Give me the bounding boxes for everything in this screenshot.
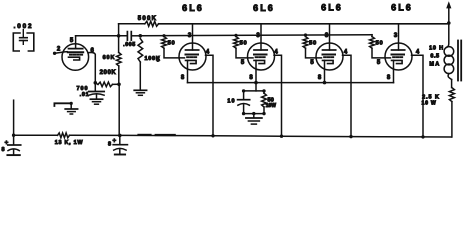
resistor 60K label — [103, 55, 116, 61]
svg-text:50: 50 — [376, 40, 384, 46]
resistor 100K grid leak — [138, 39, 143, 90]
svg-text:3: 3 — [256, 33, 260, 39]
svg-text:6.5: 6.5 — [430, 54, 439, 60]
tube V3 cathode — [254, 60, 265, 63]
resistor 13K label — [55, 140, 84, 146]
wire grid lead to V1 — [54, 52, 67, 54]
pin 3 label tube 4 — [394, 33, 398, 39]
tube V4 grid dashes — [323, 55, 336, 58]
node grid bus tap 3 — [304, 33, 307, 36]
choke core lines — [458, 41, 461, 81]
resistor 2.5K labels — [422, 95, 440, 107]
tube V1 envelope — [62, 44, 89, 71]
capacitor in input source — [20, 30, 28, 45]
capacitor 8uF right — [113, 135, 127, 154]
wire cathode pin 8 tube 2 — [255, 60, 257, 82]
svg-text:500K: 500K — [138, 16, 158, 22]
tube 6L6 label 1 — [182, 3, 204, 13]
node screen to rail 4 — [421, 135, 424, 138]
pin 3 label tube 2 — [256, 33, 260, 39]
resistor 500K feedback — [119, 21, 159, 26]
pin 4 label tube 4 — [416, 50, 420, 56]
node bias center bottom — [252, 112, 255, 115]
tube V2 plate pin 3 — [186, 24, 199, 50]
tube 6L6 V3 envelope — [248, 43, 275, 70]
wire left terminal stub — [13, 100, 15, 135]
wire screen pin 4 tube 3 — [343, 55, 352, 136]
svg-text:50: 50 — [168, 40, 176, 46]
svg-text:8: 8 — [318, 75, 322, 81]
node grid bus junction — [139, 34, 143, 38]
tube V5 plate pin 3 — [392, 24, 405, 50]
svg-text:.002: .002 — [14, 23, 34, 30]
wire bus to choke — [447, 23, 449, 47]
wire screen pin 4 tube 1 — [206, 55, 214, 136]
svg-text:10 W: 10 W — [422, 101, 437, 107]
input source right bracket — [27, 33, 34, 51]
svg-text:13 K, 1W: 13 K, 1W — [55, 140, 84, 146]
capacitor .005 label — [123, 42, 136, 48]
pin 5 label tube 3 — [310, 60, 314, 66]
svg-text:8: 8 — [108, 142, 111, 148]
resistor 50 grid V5 — [370, 35, 391, 58]
tube 6L6 label 4 — [391, 3, 413, 13]
svg-text:8: 8 — [181, 75, 185, 81]
choke labels — [429, 46, 444, 68]
svg-text:10W: 10W — [266, 103, 277, 109]
pin 8 label tube 2 — [249, 75, 253, 81]
node screen to rail 1 — [211, 134, 214, 137]
node bias res bottom — [262, 112, 265, 115]
wire cathode bus to bias network — [255, 83, 257, 91]
node cathode tube 3 — [323, 81, 327, 85]
tube V2 cathode — [186, 60, 197, 63]
capacitor .005 coupling — [127, 32, 140, 40]
node bias res top — [262, 89, 265, 92]
capacitor 8uF left labels — [1, 139, 8, 153]
wire rail bold segment 2 — [156, 134, 175, 136]
pin 8 label tube 4 — [387, 75, 391, 81]
node screen to rail 2 — [280, 135, 283, 138]
svg-text:8: 8 — [387, 75, 391, 81]
tube V5 grid dashes — [392, 55, 405, 58]
resistor 50 label 4 — [376, 40, 384, 46]
resistor 50 label 3 — [309, 40, 317, 46]
pin 5 label — [70, 38, 74, 44]
pin 3 label tube 1 — [188, 33, 192, 39]
svg-text:8: 8 — [249, 75, 253, 81]
input source left bracket — [13, 33, 20, 51]
capacitor 10 label — [227, 99, 235, 105]
node rail cap2 — [118, 134, 122, 138]
svg-text:.005: .005 — [123, 42, 136, 48]
ground bias network — [246, 114, 262, 125]
node V1 cathode junction — [94, 81, 98, 85]
wire rail bold segment 1 — [139, 134, 151, 136]
wire 60K junction down to rail — [118, 84, 120, 135]
wire up from plate junction — [118, 24, 120, 36]
tube 6L6 V2 envelope — [179, 43, 206, 70]
wire bottom rail left — [14, 134, 58, 136]
resistor 200K — [95, 82, 119, 87]
svg-text:+: + — [112, 138, 116, 145]
svg-text:MA: MA — [429, 62, 440, 68]
svg-text:2: 2 — [57, 46, 61, 52]
resistor 50 grid V4 — [303, 35, 321, 58]
svg-text:50: 50 — [309, 40, 317, 46]
wire cathode pin 8 tube 3 — [324, 60, 326, 82]
pin 5 label tube 4 — [377, 60, 381, 66]
tube 6L6 label 3 — [321, 3, 343, 13]
pin 5 label tube 1 — [156, 58, 160, 64]
pin 6 label — [91, 48, 95, 54]
svg-text:5: 5 — [70, 38, 74, 44]
wire cathode pin 8 tube 4 — [393, 60, 395, 82]
resistor 2.5K 10W — [449, 88, 454, 137]
resistor 50 grid V2 — [162, 36, 185, 58]
wire cathode pin 8 tube 1 — [187, 60, 189, 82]
pin 8 label tube 1 — [181, 75, 185, 81]
wire V1 cathode pin6 to node — [89, 52, 96, 82]
svg-text:5: 5 — [310, 60, 314, 66]
wire grid bus — [140, 35, 372, 36]
wire bottom rail — [70, 135, 452, 137]
svg-text:6L6: 6L6 — [321, 3, 343, 13]
tube V1 cathode — [69, 57, 80, 60]
node 60K bottom junction — [117, 83, 121, 87]
resistor 60K — [117, 36, 122, 85]
svg-text:10 H: 10 H — [429, 46, 444, 52]
svg-text:6L6: 6L6 — [391, 3, 413, 13]
svg-text:10: 10 — [227, 99, 235, 105]
tube V4 cathode — [323, 60, 334, 63]
resistor 50 label 2 — [240, 40, 248, 46]
node grid bus tap 2 — [234, 34, 237, 37]
pin 4 label tube 1 — [206, 50, 210, 56]
capacitor V1 cathode bypass — [89, 83, 104, 99]
node bias cap top — [242, 89, 245, 92]
wire cathode bus — [188, 82, 394, 84]
svg-text:.01: .01 — [80, 92, 90, 98]
svg-text:6L6: 6L6 — [253, 3, 275, 13]
svg-text:60K: 60K — [103, 55, 116, 61]
tube V1 plate — [69, 36, 83, 49]
ground below 100K — [134, 90, 146, 95]
resistor 700 label — [77, 86, 89, 92]
tube V3 grid dashes — [254, 55, 267, 58]
tube V3 plate pin 3 — [254, 24, 267, 50]
resistor 50 10W bias — [262, 91, 267, 114]
wire plate bus — [159, 23, 449, 25]
svg-text:50: 50 — [240, 40, 248, 46]
resistor 200K label — [100, 70, 117, 76]
capacitor 8uF left — [7, 135, 20, 155]
node rail cap1 — [12, 134, 15, 137]
pin 4 label tube 2 — [274, 50, 278, 56]
svg-text:8: 8 — [1, 147, 4, 153]
pin 5 label tube 2 — [241, 60, 245, 66]
tube 6L6 V5 envelope — [385, 43, 412, 70]
capacitor 10 bias — [238, 91, 250, 114]
capacitor .01 label — [80, 92, 90, 98]
pin 4 label tube 3 — [344, 50, 348, 56]
chassis ground with tail — [54, 102, 77, 114]
tube V1 grid dashes — [68, 52, 83, 55]
node B plus junction — [447, 21, 451, 25]
tube 6L6 label 2 — [253, 3, 275, 13]
svg-text:5: 5 — [241, 60, 245, 66]
node input grid terminal — [53, 52, 56, 55]
svg-text:5: 5 — [377, 60, 381, 66]
tube V2 grid dashes — [186, 55, 199, 58]
B plus terminal arrow — [446, 1, 451, 23]
node bias cap bottom — [242, 112, 245, 115]
tube 6L6 V4 envelope — [316, 43, 343, 70]
resistor 50 10W labels — [266, 98, 277, 110]
resistor 13K 1W — [58, 133, 70, 138]
wire choke to resistor — [451, 80, 453, 88]
wire bias bottom — [244, 113, 264, 115]
resistor 100K label — [145, 56, 161, 62]
inductor choke 10H — [444, 47, 454, 80]
svg-text:+: + — [5, 139, 9, 146]
resistor 50 label 1 — [168, 40, 176, 46]
wire V1 plate to coupling cap — [76, 35, 127, 37]
input source label .002 — [14, 23, 34, 30]
ground below cathode capacitor — [90, 99, 102, 104]
wire screen pin 4 tube 2 — [274, 55, 282, 136]
wire screen pin 4 tube 4 — [412, 55, 424, 137]
svg-text:6L6: 6L6 — [182, 3, 204, 13]
pin 8 label tube 3 — [318, 75, 322, 81]
tube V4 plate pin 3 — [323, 24, 336, 50]
node screen to rail 3 — [349, 135, 352, 138]
svg-text:3: 3 — [325, 33, 329, 39]
node plate junction — [117, 34, 121, 38]
pin 3 label tube 3 — [325, 33, 329, 39]
svg-text:3: 3 — [394, 33, 398, 39]
pin 2 label — [57, 46, 61, 52]
wire bias top — [244, 90, 264, 92]
capacitor 8uF right labels — [108, 138, 117, 148]
resistor 50 grid V3 — [234, 35, 253, 58]
node grid bus tap 1 — [162, 34, 165, 37]
resistor 500K label — [138, 16, 158, 22]
node cathode tube 2 — [254, 81, 258, 85]
svg-text:200K: 200K — [100, 70, 117, 76]
tube V5 cathode — [392, 60, 403, 63]
